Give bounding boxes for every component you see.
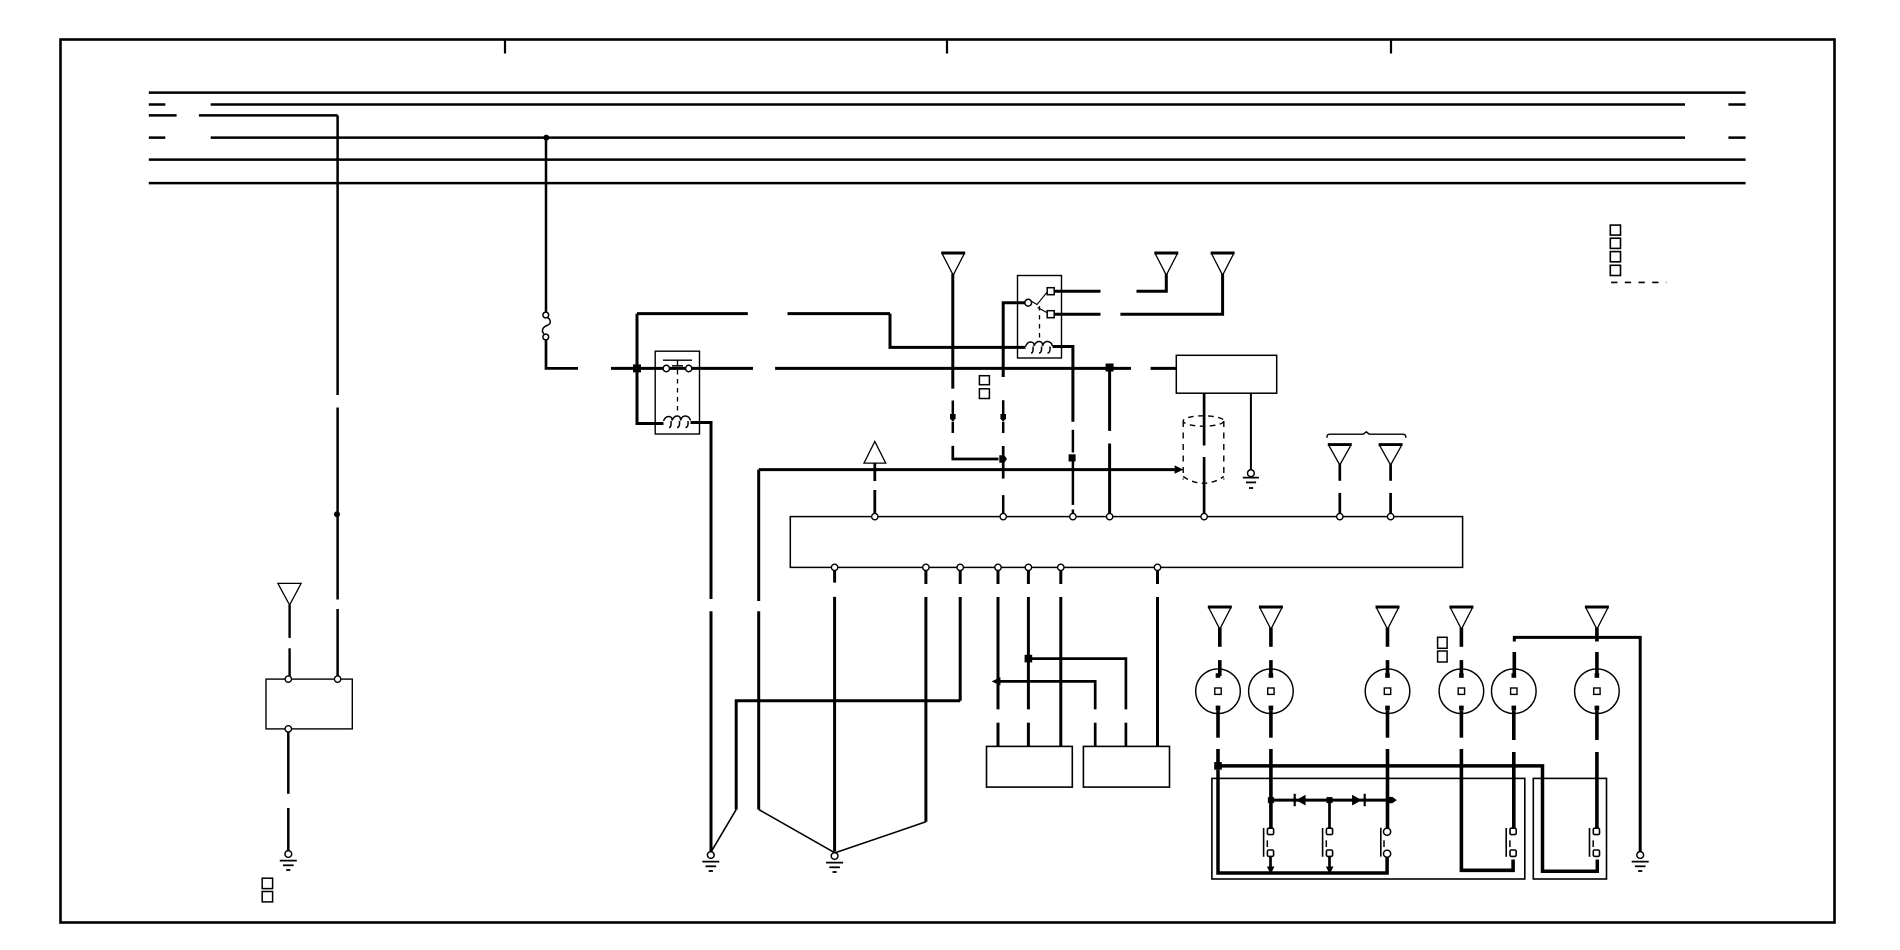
control unit box (top right small) bbox=[1176, 355, 1276, 393]
lamp L5 bbox=[1492, 669, 1537, 714]
lamp feed bus to box B bbox=[1218, 766, 1597, 871]
connector VT1 (triangle) bbox=[1328, 445, 1352, 514]
wire: R2 common to drop x=1003 bbox=[1000, 303, 1024, 514]
switch SW4 bbox=[1506, 828, 1516, 857]
ground G2 bbox=[826, 853, 843, 872]
connector UP triangle above ECU bbox=[864, 441, 886, 513]
diode D1 (pointing left) bbox=[1295, 794, 1306, 806]
wire SW2 top to diode bus bbox=[1328, 803, 1331, 829]
connector VT2 (triangle) bbox=[1379, 445, 1403, 514]
antenna cylinder (dashed) bbox=[1183, 416, 1224, 484]
wire: fuse to relay R1 (y=368.4) bbox=[546, 340, 1176, 369]
border tick 1 bbox=[504, 40, 506, 54]
wire: bus4 drop to fuse bbox=[545, 138, 548, 312]
lamp L4 bbox=[1439, 669, 1484, 714]
wire SW1 bottom to bus bbox=[1267, 857, 1275, 875]
feed wire to relay coils (y=313.6) bbox=[637, 314, 1026, 424]
ground G3 bbox=[280, 851, 297, 870]
connector triangle TL2 bbox=[1259, 607, 1283, 676]
connector squares pair near TL4 bbox=[1438, 637, 1448, 662]
wire: junction x=1109.6 drop bbox=[1108, 368, 1111, 514]
switch bus inside box 1 bbox=[1218, 770, 1387, 873]
wire: lamp L5 top to ground G4 header bbox=[1514, 637, 1640, 851]
ground G5 bbox=[1243, 470, 1259, 488]
border tick 2 bbox=[946, 40, 948, 54]
wire: ECU pin 1060.8 to switch box A bbox=[1059, 571, 1062, 747]
lamp L1 bbox=[1196, 669, 1241, 714]
ground G1 bbox=[702, 852, 719, 871]
bus wire 3 bbox=[149, 114, 338, 117]
border tick 3 bbox=[1390, 40, 1392, 54]
bus wire 1 bbox=[149, 91, 1746, 94]
bus wire 5 bbox=[149, 158, 1746, 161]
wire: L6 drop to SW5 bbox=[1595, 710, 1599, 828]
switch SW5 bbox=[1590, 828, 1600, 857]
wire: ECU pin 1157.5 to switch box B bbox=[1156, 571, 1159, 747]
left control box bbox=[266, 676, 352, 732]
relay R2 bbox=[1018, 276, 1062, 359]
wire: box to cylinder (x=1204) bbox=[1203, 393, 1206, 513]
wire: L1 drop to switch bus bbox=[1216, 710, 1220, 766]
left connector triangle VL bbox=[278, 583, 301, 676]
junction square on 1028.4 branch bbox=[1025, 655, 1033, 663]
ECU main box bbox=[790, 517, 1462, 568]
wire: ECU pin 925.9 slant to ground G2 bbox=[835, 571, 926, 853]
wire: ECU pin 960.2 funnel path to ground G1 bbox=[712, 571, 961, 852]
wire: L2 drop bbox=[1269, 710, 1273, 829]
junction on bus wire 4 bbox=[543, 135, 549, 141]
wire SW2 bottom to bus bbox=[1326, 857, 1334, 875]
ECU top pins bbox=[872, 513, 1394, 519]
legend squares column (top right) bbox=[1610, 225, 1620, 275]
bus wire 4 bbox=[149, 136, 1746, 139]
switch box A bbox=[987, 746, 1073, 787]
wire: R2 coil to drop x=1072.9 bbox=[1053, 347, 1076, 514]
lamp L3 bbox=[1365, 669, 1410, 714]
ground G4 bbox=[1632, 852, 1649, 871]
switch SW2 bbox=[1323, 828, 1333, 857]
wire: L3 drop bbox=[1386, 710, 1390, 829]
splice dot on bus3 drop bbox=[334, 511, 340, 517]
connector triangle TL4 bbox=[1449, 607, 1473, 676]
bus wire 6 bbox=[149, 182, 1746, 185]
lamp L2 bbox=[1249, 669, 1294, 714]
wire: ECU pin 834.6 to ground G2 bbox=[833, 571, 836, 852]
junction square at x=1109.6 bbox=[1106, 364, 1114, 372]
wire: box to ground (x=1251) bbox=[1250, 393, 1252, 470]
wire: R2 NC contact to connector V2 bbox=[1054, 274, 1166, 291]
wire: R2 NO contact to connector V3 bbox=[1054, 274, 1222, 314]
connector triangle TL6 bbox=[1585, 607, 1609, 637]
connector V3 (triangle) bbox=[1211, 253, 1235, 275]
connector V1 (triangle) bbox=[941, 253, 965, 275]
connector squares pair near x=980 bbox=[979, 376, 989, 399]
brace over twin connectors bbox=[1327, 432, 1406, 438]
wire: L4 drop into box A2 bbox=[1461, 710, 1513, 870]
wire: L5 drop to SW4 bbox=[1512, 710, 1516, 828]
junction square at x=637 bbox=[633, 364, 641, 372]
wire: branch 1028.4 to box B (swap) bbox=[1028, 659, 1126, 747]
wire: ECU pin 998 to switch box A bbox=[997, 571, 1000, 747]
wire: shield drop to funnel bbox=[759, 470, 835, 853]
connector triangle TL3 bbox=[1376, 607, 1400, 676]
wire: branch 998 to box B (swap) bbox=[998, 681, 1095, 746]
switch assembly box 1 bbox=[1212, 778, 1525, 879]
junction square at L1/bus bbox=[1214, 762, 1222, 770]
fuse (circuit breaker) bbox=[542, 312, 550, 340]
switch SW1 bbox=[1264, 828, 1274, 857]
ECU bottom pins bbox=[831, 564, 1160, 570]
wire: R1 coil out to ground drop bbox=[691, 423, 712, 852]
connector V2 (triangle) bbox=[1154, 253, 1178, 275]
wire: V1 drop (dashed with inline connector) bbox=[950, 274, 1007, 463]
relay R1 bbox=[655, 351, 699, 434]
wire: bus3 drop to left box bbox=[336, 115, 339, 679]
inline connector arrow on 998 branch bbox=[992, 677, 1001, 685]
connector triangle TL1 bbox=[1208, 607, 1232, 676]
connector squares pair bottom left bbox=[262, 878, 272, 902]
switch SW3 bbox=[1381, 828, 1391, 858]
shield wire with arrow into cylinder bbox=[759, 465, 1184, 473]
switch assembly box 2 bbox=[1533, 778, 1606, 879]
wire: ECU pin 1028.4 to switch box A bbox=[1027, 571, 1030, 747]
wire: left box to ground G3 bbox=[287, 732, 290, 850]
legend dashed line bbox=[1611, 281, 1666, 283]
switch box B bbox=[1083, 746, 1169, 787]
diode bus bbox=[1268, 797, 1397, 803]
diode D2 (pointing right) bbox=[1352, 794, 1365, 806]
bus wire 2 bbox=[149, 103, 1746, 106]
lamp L6 bbox=[1575, 669, 1620, 714]
